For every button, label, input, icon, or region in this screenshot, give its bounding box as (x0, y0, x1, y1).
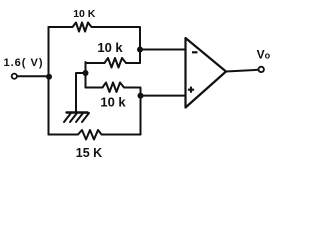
svg-text:1.6( V): 1.6( V) (4, 57, 44, 69)
svg-text:10 k: 10 k (100, 94, 126, 109)
svg-text:15 K: 15 K (76, 146, 102, 160)
svg-text:Vo: Vo (257, 47, 271, 61)
svg-text:10 K: 10 K (73, 8, 96, 20)
svg-text:10 k: 10 k (97, 40, 123, 55)
